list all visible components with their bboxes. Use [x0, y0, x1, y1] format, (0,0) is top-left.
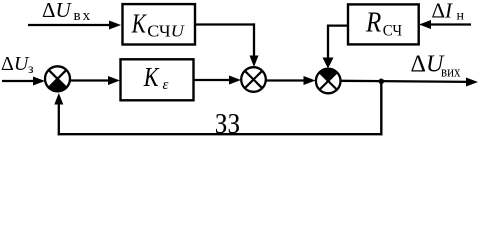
wire input ΔU_вх into K_СЧU [28, 21, 121, 30]
svg-text:СЧ: СЧ [383, 23, 402, 40]
summing junction S2 (middle, with X) [241, 67, 266, 92]
svg-text:R: R [365, 7, 381, 39]
block K_СЧU [123, 4, 196, 44]
summing junction S1 (left, with X and filled bottom sector) [45, 66, 70, 91]
wire input ΔU_з into left summer [2, 77, 45, 86]
wire output ΔU_вих [341, 78, 479, 87]
summing junction S3 (right, with X and filled top sector) [316, 69, 341, 94]
svg-text:вх: вх [74, 8, 93, 24]
svg-text:ΔU: ΔU [411, 51, 445, 77]
wire K_ε output to middle summer [194, 76, 241, 85]
svg-text:н: н [457, 9, 465, 24]
label K_СЧU [131, 9, 185, 41]
label K_ε [143, 62, 169, 93]
wire feedback ЗЗ (node down, across, up into left summer) [54, 81, 382, 135]
wire middle summer to right summer [266, 76, 316, 85]
wire left summer to K_ε [70, 76, 120, 85]
wire input ΔI_н into R_СЧ [419, 20, 471, 29]
svg-text:K: K [143, 62, 160, 92]
svg-text:ε: ε [163, 77, 169, 93]
svg-text:з: з [28, 62, 34, 77]
svg-text:ΔI: ΔI [432, 0, 454, 23]
svg-text:ΔU: ΔU [1, 53, 30, 75]
svg-text:ЗЗ: ЗЗ [215, 108, 240, 140]
svg-text:ΔU: ΔU [42, 0, 73, 22]
label R_СЧ [365, 7, 402, 40]
wire R_СЧ output to right summer [323, 25, 349, 69]
node junction dot [379, 79, 385, 85]
wire K_СЧU output to middle summer [195, 23, 259, 67]
svg-text:K: K [131, 9, 148, 39]
block K_ε [121, 59, 194, 100]
block R_СЧ [348, 4, 419, 44]
svg-text:СЧU: СЧU [147, 22, 185, 41]
svg-text:вих: вих [441, 64, 461, 80]
